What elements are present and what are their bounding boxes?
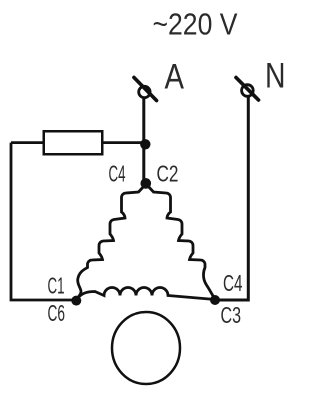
svg-text:N: N [265, 57, 286, 96]
wire: phase A drop to junction [142, 96, 145, 183]
svg-text:C3: C3 [221, 302, 242, 328]
svg-text:C1: C1 [48, 273, 65, 299]
winding bottom side C6-C3 [77, 288, 216, 301]
svg-text:C6: C6 [48, 300, 66, 326]
node: bottom-left C1/C6 [71, 296, 81, 306]
resistor R (starting capacitor/resistor box) [44, 131, 103, 154]
wire: resistor right lead [104, 141, 146, 144]
svg-text:~220 V: ~220 V [153, 8, 239, 42]
node: junction resistor/A-wire [140, 139, 150, 149]
winding right side C2-C3 [146, 184, 214, 298]
wire: resistor left lead [11, 141, 43, 144]
node: bottom-right C4/C3 [210, 295, 220, 305]
wire: neutral N drop [217, 96, 248, 300]
wire: left branch down to C6 node [11, 143, 77, 300]
node: winding apex C4/C2 [141, 178, 152, 189]
svg-text:C4: C4 [109, 161, 126, 187]
svg-text:A: A [165, 58, 185, 97]
winding left side C1-C4 [77, 184, 146, 299]
switch A [134, 78, 157, 101]
motor rotor circle [112, 312, 180, 384]
svg-text:C2: C2 [157, 161, 179, 187]
switch N [236, 78, 259, 101]
svg-text:C4: C4 [223, 270, 243, 296]
